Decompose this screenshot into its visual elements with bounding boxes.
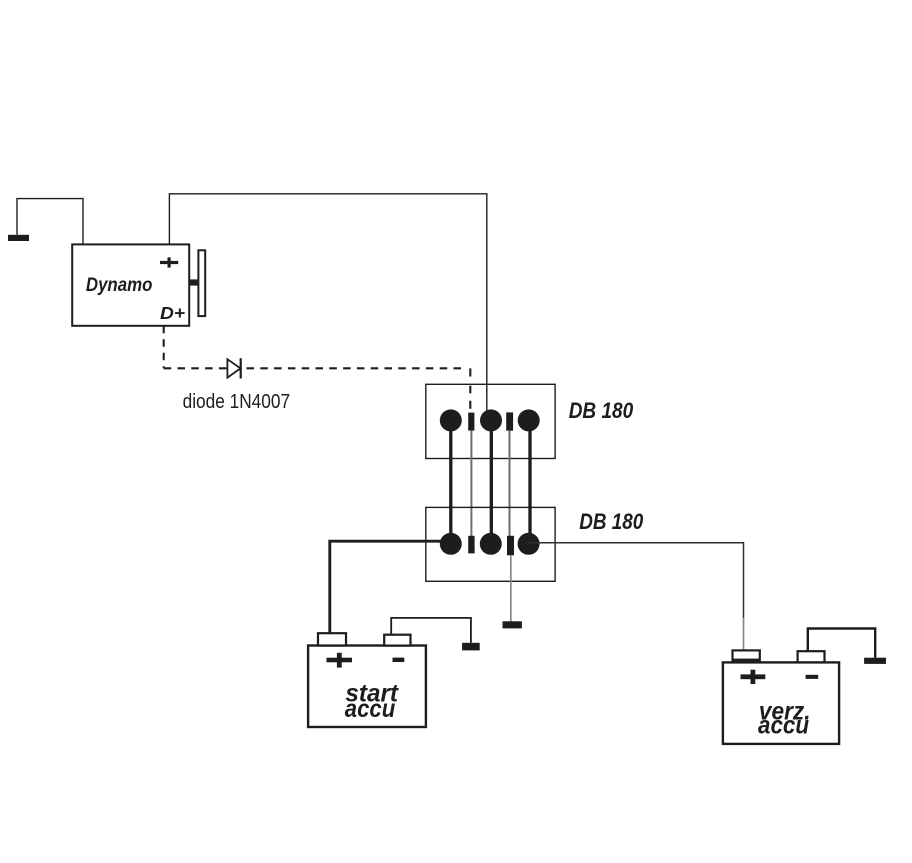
svg-text:diode 1N4007: diode 1N4007 bbox=[183, 391, 291, 413]
wire bottom relay bar2 to middle ground bbox=[510, 555, 512, 622]
wire start accu - to ground bbox=[391, 618, 471, 643]
wire (dashed) D+ down from dynamo bbox=[163, 326, 165, 369]
contact 3 bbox=[518, 533, 540, 555]
wire bar1 top relay to bar1 bottom relay bbox=[470, 431, 472, 536]
relay DB 180 (bottom) bbox=[426, 507, 644, 581]
wire verz accu + lower stub (gray) bbox=[743, 618, 745, 650]
ground (middle, relay) bbox=[503, 621, 522, 628]
plus sign bbox=[741, 674, 766, 679]
wire verz accu - to ground bbox=[808, 629, 875, 658]
ground (verz. accu) bbox=[864, 658, 886, 664]
contact 1 bbox=[440, 409, 462, 431]
- terminal post bbox=[798, 651, 825, 662]
diode 1N4007 bbox=[183, 358, 291, 413]
terminal bar 2 bbox=[507, 536, 514, 556]
+ terminal post bbox=[318, 633, 346, 645]
minus sign bbox=[393, 658, 405, 662]
terminal bar 1 bbox=[468, 413, 474, 431]
contact 3 bbox=[518, 409, 540, 431]
battery start accu bbox=[308, 633, 426, 727]
contact 2 bbox=[480, 533, 502, 555]
wire bottom relay contact3 to verz accu + (dark run) bbox=[529, 543, 744, 618]
plus terminal label bbox=[160, 261, 178, 264]
wire ground to dynamo top bbox=[17, 199, 83, 245]
+ terminal base bar bbox=[732, 659, 761, 664]
commutator brush on dynamo bbox=[190, 250, 206, 316]
wire contact1 top relay to contact1 bottom relay bbox=[449, 420, 452, 543]
wire bottom relay contact1 to start accu + bbox=[330, 541, 451, 633]
contact 2 bbox=[480, 409, 502, 431]
plus sign bbox=[327, 658, 353, 663]
dynamo bbox=[72, 244, 189, 325]
ground (dynamo frame) bbox=[8, 235, 29, 241]
- terminal post bbox=[384, 635, 410, 646]
svg-text:accu: accu bbox=[758, 712, 809, 740]
wire contact3 top relay to contact3 bottom relay bbox=[528, 420, 531, 543]
minus sign bbox=[806, 675, 819, 679]
wire contact2 top relay to contact2 bottom relay bbox=[490, 420, 493, 543]
+ terminal post bbox=[733, 650, 760, 662]
terminal bar 1 bbox=[468, 536, 474, 554]
relay DB 180 (top) bbox=[426, 384, 634, 458]
wire (dashed) vertical into relay to bar1 bbox=[469, 368, 471, 408]
svg-text:DB 180: DB 180 bbox=[569, 398, 634, 423]
svg-text:DB 180: DB 180 bbox=[579, 509, 644, 534]
wire dynamo + to top relay bbox=[169, 194, 486, 421]
svg-text:Dynamo: Dynamo bbox=[86, 275, 152, 296]
contact 1 bbox=[440, 533, 462, 555]
svg-text:accu: accu bbox=[345, 695, 395, 723]
wire bar2 top relay to bar2 bottom relay bbox=[509, 431, 511, 536]
ground (start accu) bbox=[462, 643, 480, 651]
terminal bar 2 bbox=[506, 412, 513, 430]
wire (dashed) horizontal to relay bbox=[164, 367, 463, 369]
svg-text:D+: D+ bbox=[160, 303, 185, 323]
battery verz. accu bbox=[723, 650, 839, 744]
